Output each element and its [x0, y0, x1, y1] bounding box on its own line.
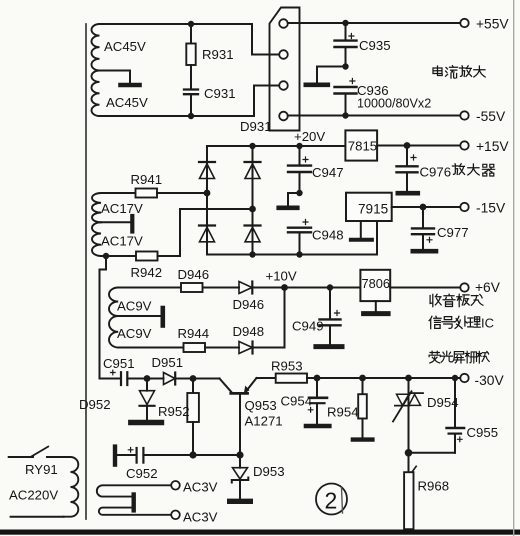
text: amplifier	[452, 164, 464, 175]
svg-text:R952: R952	[158, 404, 190, 419]
resistor R952	[192, 379, 194, 394]
svg-text:Q953: Q953	[245, 398, 277, 413]
regulator U 7806	[360, 270, 390, 301]
resistor R944	[118, 347, 183, 349]
capacitor C951	[100, 378, 121, 380]
text: current amplifier	[433, 66, 442, 76]
text: fluorescent screen grid	[429, 351, 489, 363]
diode D946	[203, 287, 240, 289]
node: C954 junction	[314, 375, 321, 382]
svg-text:10000/80Vx2: 10000/80Vx2	[357, 97, 431, 111]
svg-text:C951: C951	[103, 356, 135, 371]
AC3V center tap bar	[131, 495, 135, 511]
node: D951/R952 junction	[190, 375, 197, 382]
resistor R954	[362, 378, 364, 394]
regulator U 7915	[346, 193, 392, 221]
bridge rectifier D931	[270, 8, 300, 131]
svg-text:C948: C948	[312, 228, 344, 243]
svg-text:R941: R941	[131, 172, 163, 187]
wire: AC45V center tap	[100, 71, 131, 84]
switch RY91	[9, 456, 33, 458]
resistor (top row, labelled D946)	[118, 287, 181, 289]
svg-text:C977: C977	[437, 225, 469, 240]
terminal -55V	[460, 111, 468, 119]
node: D954 junction	[405, 375, 412, 382]
sheet number circle 2	[316, 484, 347, 515]
ground (7915)	[360, 221, 362, 238]
capacitor C931	[184, 88, 198, 90]
svg-text:A1271: A1271	[245, 414, 283, 429]
capacitor C976	[406, 146, 408, 166]
svg-text:D951: D951	[152, 355, 184, 370]
svg-text:+15V: +15V	[476, 139, 509, 154]
node: right column bottom	[249, 251, 255, 257]
wire: +15V rail	[377, 145, 460, 147]
winding AC9V (lower)	[109, 316, 118, 348]
node: C935/C936 junction	[342, 63, 348, 69]
wire: 7915 input from negative rail	[376, 221, 378, 255]
diode (bridge, upper-left)	[199, 161, 215, 163]
svg-text:D952: D952	[79, 397, 111, 412]
svg-text:7915: 7915	[358, 201, 388, 216]
svg-text:AC17V: AC17V	[101, 201, 143, 216]
wire: +10V rail	[285, 287, 361, 289]
svg-text:AC9V: AC9V	[117, 299, 152, 314]
terminal AC3V (upper)	[171, 481, 180, 490]
capacitor C949	[329, 288, 331, 319]
diode D948	[205, 347, 239, 349]
wire: -55V rail	[288, 115, 461, 117]
node: base/bottom rail junction	[236, 451, 243, 458]
pin 4 of D931	[279, 112, 288, 121]
node: left column mid (R941)	[204, 190, 211, 197]
capacitor C936	[350, 79, 355, 84]
transformer core	[85, 24, 87, 519]
node: C935 top junction	[342, 20, 348, 26]
ground (D952)	[131, 420, 162, 425]
winding AC17V (lower)	[92, 222, 101, 256]
wire: +6V output	[390, 287, 460, 289]
ground (7806)	[375, 301, 377, 311]
wire: Q953 base column	[239, 395, 241, 455]
right page edge	[513, 0, 515, 536]
bridge right column	[252, 146, 254, 255]
svg-text:RY91: RY91	[25, 462, 58, 477]
svg-text:C935: C935	[359, 38, 391, 53]
resistor R942	[101, 255, 136, 257]
wire: -15V rail	[392, 206, 461, 208]
diode D951	[147, 378, 164, 380]
AC17V center tap bar	[101, 221, 131, 223]
svg-text:C955: C955	[467, 425, 499, 440]
pin 1 of D931	[279, 19, 288, 28]
svg-text:R954: R954	[327, 405, 359, 420]
node: D954 bottom junction	[405, 449, 413, 457]
terminal +15V	[460, 141, 468, 149]
svg-text:D946: D946	[178, 267, 210, 282]
wire: AC45V bottom to D931 pin3	[100, 86, 280, 117]
node: C949 junction	[327, 284, 333, 290]
capacitor C947	[299, 146, 301, 165]
svg-text:AC3V: AC3V	[183, 510, 218, 525]
thyristor D954	[408, 378, 410, 453]
svg-text:R944: R944	[178, 326, 210, 341]
svg-text:C949: C949	[292, 319, 324, 334]
svg-text:7815: 7815	[348, 138, 377, 153]
svg-text:-30V: -30V	[475, 373, 505, 388]
wire: AC220V bottom lead	[11, 516, 64, 518]
diode (bridge, upper-right)	[245, 161, 261, 163]
svg-text:AC45V: AC45V	[106, 95, 148, 110]
node: C948 bottom junction	[296, 251, 302, 257]
node: C936 bottom junction	[342, 112, 348, 118]
text: signal processing IC	[429, 316, 441, 328]
node: C976 junction	[404, 142, 411, 149]
svg-text:D948: D948	[233, 324, 265, 339]
resistor R931	[190, 24, 192, 44]
capacitor C952	[113, 447, 117, 465]
node: AC17V bottom junction	[103, 253, 109, 259]
regulator U 7815	[345, 130, 377, 160]
svg-text:AC9V: AC9V	[117, 326, 152, 341]
node: right column top	[249, 143, 255, 149]
zener D953	[239, 455, 241, 468]
AC9V center tap bar	[118, 315, 160, 317]
svg-text:D931: D931	[240, 119, 272, 134]
pin 2 of D931	[279, 50, 288, 59]
svg-text:D954: D954	[427, 395, 459, 410]
svg-text:D953: D953	[253, 464, 285, 479]
svg-text:C931: C931	[204, 86, 236, 101]
text: radio board and	[430, 294, 441, 306]
winding AC220V primary	[64, 457, 79, 517]
wire: +10V column down	[284, 288, 286, 348]
svg-text:C954: C954	[281, 394, 313, 409]
resistor R941	[101, 192, 136, 194]
ground (between C935/C936)	[317, 67, 346, 83]
svg-text:C976: C976	[420, 165, 452, 180]
diode D952	[146, 379, 148, 391]
svg-text:AC45V: AC45V	[104, 39, 146, 54]
wire: +20V rail	[207, 145, 345, 147]
svg-text:+20V: +20V	[294, 129, 325, 144]
wire: negative rail bottom	[207, 254, 377, 256]
svg-text:7806: 7806	[362, 276, 390, 291]
wire: +55V rail	[288, 22, 461, 24]
capacitor C948	[303, 220, 308, 225]
diode (bridge, lower-left)	[199, 224, 215, 226]
winding AC45V (upper)	[91, 24, 99, 70]
transistor Q2 Q953 A1271	[193, 378, 220, 380]
svg-text:AC220V: AC220V	[9, 488, 58, 503]
node: +10V junction	[281, 284, 288, 291]
winding AC9V (upper)	[109, 288, 118, 317]
svg-text:-55V: -55V	[476, 109, 506, 124]
wire: hook down to -30V section	[100, 256, 107, 379]
terminal +55V	[460, 19, 468, 27]
node: C955 junction	[452, 375, 458, 381]
ground bar (AC45V tap)	[121, 83, 140, 88]
svg-text:R942: R942	[131, 265, 163, 280]
node: C977 junction	[420, 204, 427, 211]
resistor R968	[408, 453, 410, 472]
terminal -15V	[460, 203, 468, 211]
svg-text:C947: C947	[312, 165, 344, 180]
capacitor C977	[422, 207, 424, 228]
svg-text:AC3V: AC3V	[183, 480, 218, 495]
ground (D953)	[230, 499, 251, 504]
diode (bridge, lower-right)	[245, 224, 261, 226]
pin 3 of D931	[279, 81, 288, 90]
svg-text:D946: D946	[233, 297, 265, 312]
svg-text:R968: R968	[418, 479, 450, 494]
resistor R953	[257, 377, 276, 379]
terminal AC3V (lower)	[171, 511, 180, 520]
svg-text:2: 2	[325, 488, 338, 514]
svg-text:R953: R953	[271, 359, 303, 374]
node: right column mid (R942)	[249, 206, 256, 213]
ground (C947/C948)	[288, 193, 300, 206]
node: junction C931 bottom	[188, 113, 194, 119]
bridge left column	[206, 146, 208, 255]
winding AC3V	[97, 485, 171, 496]
node: R952 bottom junction	[189, 451, 196, 458]
svg-text:+55V: +55V	[476, 17, 509, 32]
svg-text:C952: C952	[126, 466, 158, 481]
svg-text:AC17V: AC17V	[101, 234, 143, 249]
node: C951/D951 junction	[144, 375, 151, 382]
svg-text:-15V: -15V	[476, 201, 506, 216]
bottom border	[0, 530, 520, 535]
svg-text:IC: IC	[481, 316, 494, 331]
svg-text:+10V: +10V	[266, 269, 297, 284]
terminal +6V	[460, 283, 468, 291]
wire: -30V rail	[307, 377, 461, 379]
terminal -30V	[460, 374, 468, 382]
wire: R942 to bridge right column	[180, 209, 253, 256]
capacitor C955	[454, 378, 456, 427]
node: R954 junction	[359, 375, 366, 382]
svg-text:+6V: +6V	[475, 280, 501, 295]
node: junction R931 top	[188, 21, 194, 27]
winding AC17V (upper)	[92, 193, 101, 222]
wire: AC45V top to D931 pin2	[100, 24, 280, 55]
capacitor C954	[316, 378, 318, 396]
node: C947/C948 ground junction	[296, 190, 302, 196]
svg-text:R931: R931	[202, 47, 234, 62]
winding AC45V (lower)	[91, 71, 99, 117]
capacitor C935	[345, 23, 347, 40]
node: C947 top junction	[296, 143, 302, 149]
